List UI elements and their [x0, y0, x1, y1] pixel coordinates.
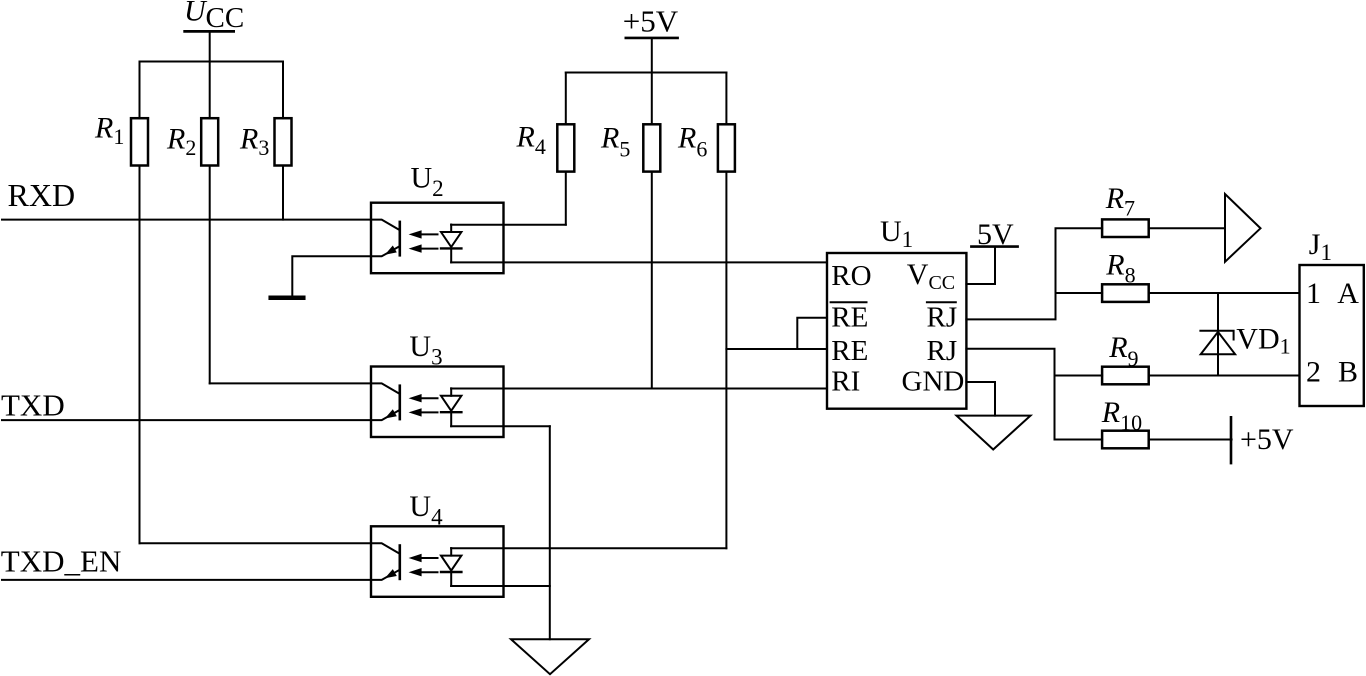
svg-text:VCC: VCC	[907, 258, 955, 294]
svg-text:TXD: TXD	[1, 387, 65, 422]
resistor R6	[718, 124, 735, 171]
U3 LED cathode bar	[441, 411, 461, 413]
wire R6 to U1 RE	[726, 348, 827, 350]
U3 LED triangle	[441, 396, 461, 411]
zener diode VD1 cathode bar	[1200, 331, 1233, 340]
svg-text:RE: RE	[831, 301, 868, 333]
wire R4 bottom vertical	[565, 172, 567, 225]
wire RXD line	[2, 219, 371, 221]
ground triangle (U1 GND)	[957, 416, 1031, 450]
U4 phototransistor collector lead	[371, 543, 400, 554]
U4 LED cathode vertical	[450, 572, 452, 586]
wire R1 top drop	[139, 62, 141, 119]
svg-text:RI: RI	[831, 366, 860, 398]
resistor R2	[201, 118, 218, 165]
svg-text:R4: R4	[516, 121, 546, 160]
wire junction to R8	[1056, 292, 1103, 294]
U2 phototransistor collector lead	[371, 220, 400, 231]
U2 LED triangle	[441, 232, 461, 247]
wire R10 to +5V	[1149, 439, 1232, 441]
svg-text:R7: R7	[1105, 182, 1135, 221]
IC U1	[827, 253, 966, 409]
U2 emitter arrowhead	[385, 246, 397, 255]
wire R5 top drop	[651, 73, 653, 125]
svg-text:RJ: RJ	[927, 301, 958, 333]
U2 light arrow 2	[421, 248, 438, 250]
ground bar (U2 emitter)	[271, 296, 304, 301]
svg-text:R9: R9	[1108, 331, 1138, 371]
pin nRE overline	[831, 301, 867, 303]
resistor R8	[1102, 284, 1149, 302]
resistor R5	[643, 124, 660, 171]
wire R9 to J1 pin2	[1149, 375, 1300, 377]
svg-text:U1: U1	[880, 215, 913, 252]
U2 LED cathode bar	[441, 247, 461, 249]
wire TXD_EN line	[2, 579, 371, 581]
U3 emitter arrowhead	[385, 409, 397, 418]
svg-text:5V: 5V	[977, 218, 1014, 251]
svg-text:U2: U2	[411, 162, 444, 202]
svg-text:VD1: VD1	[1236, 322, 1290, 358]
resistor R3	[275, 118, 292, 165]
U3 light arrow 1	[421, 397, 438, 399]
resistor R7	[1102, 219, 1149, 237]
svg-text:RJ: RJ	[927, 335, 958, 367]
wire VCC to 5V	[966, 247, 995, 284]
wire cathodes to ground	[549, 426, 551, 639]
U2 LED anode vertical	[450, 225, 452, 233]
svg-text:U3: U3	[409, 330, 442, 370]
5V power bar	[971, 245, 1017, 248]
wire U4 cathode	[451, 585, 550, 587]
U2 LED cathode vertical	[450, 248, 452, 262]
zener diode VD1 triangle	[1201, 332, 1235, 354]
UCC power bar	[185, 30, 234, 33]
svg-text:2: 2	[1306, 355, 1321, 388]
wire UCC stem	[209, 33, 211, 62]
U4 LED triangle	[441, 556, 461, 571]
U4 phototransistor emitter lead	[371, 570, 400, 580]
U2 phototransistor bar	[398, 222, 401, 255]
resistor R10	[1102, 431, 1149, 449]
U3 phototransistor collector lead	[371, 383, 400, 394]
svg-text:A: A	[1337, 277, 1359, 310]
wire R4 top drop	[565, 73, 567, 125]
connector J1	[1300, 265, 1364, 406]
U2 light arrow 1	[421, 233, 438, 235]
wire R1 bottom vertical	[139, 166, 141, 544]
svg-text:RO: RO	[831, 260, 871, 292]
U4 LED anode vertical	[450, 548, 452, 556]
U3 phototransistor bar	[398, 386, 401, 419]
wire R7 to triangle	[1149, 227, 1225, 229]
svg-text:RXD: RXD	[8, 177, 76, 213]
U3 LED cathode vertical	[450, 412, 452, 426]
svg-text:R10: R10	[1101, 396, 1142, 435]
wire R2 to U3 collector	[210, 382, 371, 384]
svg-text:J1: J1	[1309, 228, 1332, 265]
wire RJ to R9/R10	[966, 349, 1102, 440]
wire R2 bottom vertical	[209, 166, 211, 384]
svg-text:R8: R8	[1105, 249, 1135, 288]
zener diode VD1 stem	[1217, 293, 1219, 376]
wire +5V rail	[566, 72, 727, 74]
wire U3 anode to U1 RI	[451, 388, 827, 390]
wire R3 top drop	[282, 62, 284, 119]
wire junction to R9	[1055, 375, 1103, 377]
wire R6 bottom vertical	[725, 172, 727, 549]
U4 phototransistor bar	[398, 546, 401, 579]
ground triangle (opto cathodes)	[511, 639, 589, 674]
pin nRJ overline	[927, 301, 956, 303]
svg-text:B: B	[1338, 355, 1358, 388]
svg-text:U4: U4	[409, 490, 443, 530]
U4 light arrow 1	[421, 557, 438, 559]
optocoupler U3	[371, 367, 504, 438]
U3 phototransistor emitter lead	[371, 410, 400, 420]
svg-text:U: U	[184, 0, 208, 27]
resistor R4	[557, 124, 574, 171]
wire +5V stem	[651, 39, 653, 73]
svg-text:1: 1	[1306, 277, 1321, 310]
svg-text:CC: CC	[206, 2, 245, 34]
+5V power bar	[626, 37, 678, 40]
U2 phototransistor emitter lead	[371, 246, 400, 256]
wire nRJ to R7/R8	[966, 228, 1102, 319]
U4 light arrow 2	[421, 571, 438, 573]
wire U2 emitter to ground	[292, 256, 371, 296]
svg-text:R3: R3	[239, 122, 269, 160]
wire R2 top drop	[209, 62, 211, 119]
buffer triangle	[1225, 194, 1261, 262]
optocoupler U4	[371, 526, 504, 597]
U4 emitter arrowhead	[385, 569, 397, 578]
wire U3 cathode	[451, 425, 550, 427]
wire U4 anode to R6	[451, 547, 726, 549]
wire R8 to J1 pin1	[1149, 292, 1300, 294]
wire UCC rail	[140, 61, 284, 63]
resistor R9	[1102, 367, 1149, 385]
svg-text:R2: R2	[166, 122, 196, 160]
svg-text:R1: R1	[94, 112, 124, 150]
svg-text:+5V: +5V	[1240, 423, 1294, 456]
svg-text:R6: R6	[677, 122, 707, 162]
svg-text:R5: R5	[600, 122, 630, 162]
wire TXD line	[2, 419, 371, 421]
wire U2 cathode to U1 RO	[451, 261, 827, 263]
wire R4 to U2 LED anode	[451, 224, 566, 226]
wire R3 bottom vertical	[282, 166, 284, 220]
wire R6 top drop	[725, 73, 727, 125]
svg-text:RE: RE	[831, 335, 868, 367]
U3 LED anode vertical	[450, 388, 452, 396]
optocoupler U2	[371, 203, 504, 274]
U3 light arrow 2	[421, 411, 438, 413]
wire U1 nRE jog	[797, 318, 827, 349]
wire R1 to U4 collector	[140, 542, 372, 544]
wire GND pin	[966, 382, 995, 416]
svg-text:+5V: +5V	[623, 4, 679, 39]
svg-text:TXD_EN: TXD_EN	[1, 543, 122, 578]
U4 LED cathode bar	[441, 571, 461, 573]
resistor R1	[131, 118, 148, 165]
+5V power bar (right)	[1230, 417, 1233, 463]
wire R5 bottom vertical	[651, 172, 653, 389]
svg-text:GND: GND	[902, 366, 965, 398]
